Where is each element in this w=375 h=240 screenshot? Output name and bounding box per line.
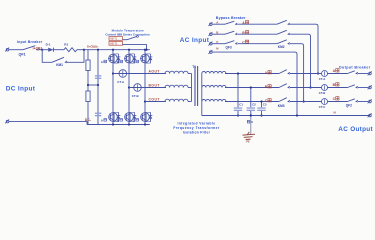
thermal sensor box HB-T2 — [109, 42, 123, 46]
AC input terminal N — [208, 50, 212, 54]
capacitor C2 top lead — [250, 88, 252, 108]
svg-text:C3: C3 — [263, 103, 267, 107]
bus dot bottom leg A — [112, 123, 114, 125]
bypass breaker QF3 pole B — [225, 31, 237, 35]
wire B to KM2 — [238, 33, 278, 35]
svg-text:T1: T1 — [192, 65, 196, 69]
output breaker QF2 pole B — [348, 85, 358, 88]
AC input label B — [216, 30, 219, 34]
capacitor C1 bottom lead — [237, 111, 239, 116]
svg-text:N: N — [216, 47, 218, 51]
wire secondary B to KM3 — [225, 87, 279, 89]
DC link capacitor rail — [97, 50, 99, 125]
bypass contactor KM2 pole C — [277, 40, 290, 45]
breaker QF1 — [23, 46, 38, 51]
phase C tap dot — [144, 100, 146, 102]
wire CT to QF2 B — [328, 87, 348, 89]
wire C to KM2 — [238, 43, 278, 45]
svg-text:Frequency Transformer: Frequency Transformer — [173, 126, 220, 130]
wire CT to QF2 A — [328, 73, 348, 75]
svg-text:Input Breaker: Input Breaker — [17, 40, 43, 44]
transformer core — [195, 66, 198, 106]
svg-text:N: N — [334, 110, 336, 114]
output contactor KM3 pole B — [279, 84, 290, 88]
thermal bus junction dot — [145, 49, 147, 51]
svg-text:DC Input: DC Input — [6, 86, 36, 93]
phase A wire — [113, 73, 166, 75]
DC+ input terminal — [5, 48, 9, 52]
capacitor C2 tap dot — [250, 86, 252, 88]
caption line3 — [183, 130, 211, 134]
label Input Breaker — [17, 40, 43, 44]
wire A to KM2 — [238, 23, 278, 25]
AC input label N — [216, 47, 218, 51]
wire secondary C to KM3 — [225, 101, 279, 103]
leg A vertical — [112, 50, 114, 125]
svg-text:C1: C1 — [239, 103, 243, 107]
label T1 — [192, 65, 196, 69]
svg-text:QF1: QF1 — [19, 52, 26, 56]
primary star link — [191, 74, 193, 102]
AC output terminal C — [368, 99, 372, 103]
contactor KM1 — [52, 57, 67, 63]
label DC Input — [6, 86, 36, 93]
thermal wire 1 — [123, 39, 128, 41]
CT-A sensor — [119, 70, 127, 78]
AC input label A — [216, 20, 219, 24]
bus dot top leg B — [128, 49, 130, 51]
resistor R1 — [64, 48, 77, 52]
leg C vertical — [144, 50, 146, 125]
bypass contactor KM2 pole B — [277, 30, 290, 35]
svg-text:Isolation Filter: Isolation Filter — [183, 130, 211, 134]
neutral label box-N — [247, 120, 252, 124]
AC input terminal C — [208, 42, 212, 46]
bypass wire A down — [290, 24, 318, 73]
label CT-C out — [319, 105, 326, 109]
svg-text:COUT: COUT — [149, 97, 160, 101]
AC output terminal A — [368, 71, 372, 75]
balance resistor rail — [87, 50, 89, 125]
phase C wire — [145, 101, 166, 103]
IGBT B upper label — [117, 60, 123, 64]
svg-text:HB-T2: HB-T2 — [110, 43, 118, 46]
DC- input wire — [9, 122, 87, 125]
label Bypass Breaker — [216, 16, 246, 20]
neutral bus — [202, 115, 370, 117]
midpoint dot left — [87, 84, 89, 86]
wire QF2 to terminal B — [358, 87, 368, 89]
leg B vertical — [128, 50, 130, 125]
svg-text:D+CB(1)+: D+CB(1)+ — [87, 44, 99, 48]
capacitor C1 tap dot — [237, 72, 239, 74]
wire QF2 to terminal A — [358, 73, 368, 75]
wire secondary A to KM3 — [225, 73, 279, 75]
AC input terminal B — [208, 32, 212, 36]
IGBT A lower label — [101, 118, 107, 122]
output node label A — [333, 69, 339, 73]
output contactor KM3 pole C — [279, 98, 290, 102]
label CT-A out — [319, 77, 326, 81]
bus dot top leg C — [144, 49, 146, 51]
label PE — [246, 141, 250, 144]
output CT-B — [322, 85, 328, 91]
thermal sensor box HB-T1 — [109, 37, 123, 41]
bypass join dot C — [303, 100, 305, 102]
DC- input terminal — [5, 119, 9, 123]
label CT-A — [117, 80, 125, 84]
bypass node label A — [242, 21, 248, 25]
filter inductor C (primary winding) — [165, 99, 192, 101]
CT-B sensor — [134, 84, 142, 92]
label C1 — [239, 103, 243, 107]
IGBT C upper label — [133, 60, 139, 64]
DC link capacitor upper — [95, 75, 101, 79]
capacitor C3 top lead — [261, 102, 263, 108]
IGBT A lower — [108, 112, 120, 121]
output neutral label N — [334, 110, 336, 114]
bypass breaker QF3 pole C — [225, 41, 237, 45]
output CT-A — [322, 71, 328, 77]
phase B tap dot — [128, 86, 130, 88]
bypass branch wire up-right — [67, 50, 84, 63]
label DC- — [85, 118, 92, 122]
svg-text:QF2: QF2 — [346, 104, 352, 108]
wire CT to QF2 C — [328, 101, 348, 103]
output node label C — [333, 97, 339, 101]
AC input terminal A — [208, 22, 212, 26]
output contactor KM3 pole A — [279, 70, 290, 74]
DC+ top bus — [84, 49, 150, 51]
wire QF1 to node — [38, 49, 42, 51]
thermal wire 2 — [123, 43, 147, 45]
label CT-B out — [319, 91, 326, 95]
capacitor C3 neutral dot — [260, 114, 262, 116]
AC input wire B to QF3 — [212, 33, 225, 35]
phase B wire — [129, 87, 166, 89]
junction dot D+ node — [83, 49, 85, 51]
bypass join dot B — [309, 86, 311, 88]
wire KM3 to CT A — [290, 73, 322, 75]
capacitor C3 bottom lead — [261, 111, 263, 116]
thermal switch pivot — [137, 36, 139, 38]
label CT-B — [132, 94, 139, 98]
earth ground symbol — [243, 132, 256, 140]
AC output terminal N — [368, 113, 372, 117]
neutral wire N to corner — [212, 52, 297, 115]
bypass contactor KM2 pole A — [277, 20, 290, 25]
svg-text:PE: PE — [246, 141, 250, 144]
wire KM3 to CT C — [290, 101, 322, 103]
bypass breaker QF3 pole A — [225, 21, 237, 25]
output breaker QF2 pole A — [348, 71, 358, 74]
label AOUT — [149, 69, 160, 73]
inverter-output label A — [265, 71, 271, 75]
wire R1 to node D+CB1 — [77, 49, 84, 51]
svg-text:KM2: KM2 — [278, 45, 285, 49]
midpoint dot right — [97, 84, 99, 86]
svg-text:Control 888 Series Conception: Control 888 Series Conception — [105, 32, 149, 36]
IGBT C lower — [140, 112, 152, 121]
balance resistor upper — [86, 60, 90, 71]
wire DC+ terminal to QF1 — [9, 49, 23, 51]
node D+CB(1)+ label — [87, 44, 99, 48]
capacitor C1 — [234, 107, 242, 111]
bus dot top leg A — [112, 49, 114, 51]
label R1 — [64, 43, 68, 47]
label BOUT — [149, 83, 160, 87]
inverter-output label C — [265, 99, 271, 103]
svg-text:R1: R1 — [64, 43, 68, 47]
IGBT A upper label — [101, 60, 107, 64]
label Output Breaker — [339, 65, 371, 69]
secondary star link — [201, 74, 203, 116]
bypass wire C down — [290, 44, 304, 102]
node i+CB1 label — [33, 46, 43, 50]
svg-text:BOUT: BOUT — [149, 83, 160, 87]
label AC Output — [338, 126, 373, 133]
AC output terminal B — [368, 85, 372, 89]
bypass wire B down — [290, 34, 311, 87]
label KM2 — [278, 45, 285, 49]
svg-text:CT-C: CT-C — [319, 105, 326, 109]
IGBT B upper — [124, 54, 136, 63]
svg-text:Bypass Breaker: Bypass Breaker — [216, 16, 246, 20]
svg-text:CT-A: CT-A — [319, 77, 326, 81]
neutral join dot — [296, 114, 298, 116]
svg-text:AOUT: AOUT — [149, 69, 160, 73]
AC input label C — [216, 40, 219, 44]
bypass branch wire down-left — [42, 50, 52, 63]
label COUT — [149, 97, 160, 101]
DC link capacitor lower — [95, 113, 101, 117]
label D-1 — [46, 43, 51, 47]
output breaker QF2 pole C — [348, 99, 358, 102]
svg-text:D-1: D-1 — [46, 43, 51, 47]
IGBT C upper — [140, 54, 152, 63]
capacitor C3 tap dot — [260, 100, 262, 102]
label QF2 — [346, 104, 352, 108]
svg-text:i+CB1: i+CB1 — [33, 46, 43, 50]
svg-text:Integrated Variable: Integrated Variable — [177, 122, 215, 126]
svg-text:CT-A: CT-A — [117, 80, 125, 84]
bus dot bottom leg C — [144, 123, 146, 125]
label C3 — [263, 103, 267, 107]
secondary winding C — [202, 99, 226, 101]
output node label B — [333, 83, 339, 87]
wire QF2 to terminal C — [358, 101, 368, 103]
svg-text:QF3: QF3 — [226, 45, 232, 49]
svg-text:KM3: KM3 — [278, 104, 285, 108]
bypass node label C — [242, 40, 248, 44]
bypass node label B — [242, 31, 248, 35]
caption line2 — [173, 126, 220, 130]
midpoint tie wire — [88, 84, 98, 86]
DC- bottom bus — [87, 124, 150, 126]
wire KM3 to CT B — [290, 87, 322, 89]
capacitor C2 bottom lead — [250, 111, 252, 116]
phase A tap dot — [112, 72, 114, 74]
svg-text:KM1: KM1 — [56, 63, 63, 67]
thermal switch blade — [127, 37, 137, 40]
bypass join dot A — [317, 72, 319, 74]
label KM1 — [56, 63, 63, 67]
IGBT B lower label — [117, 118, 123, 122]
AC input wire A to QF3 — [212, 23, 225, 25]
wire D-1 to R1 — [53, 49, 64, 51]
output CT-C — [322, 99, 328, 105]
label AC Input — [180, 37, 210, 44]
thermal wire to bus — [146, 44, 148, 49]
inverter-output label B — [265, 85, 271, 89]
label QF1 — [19, 52, 26, 56]
node junction after QF1 — [41, 49, 43, 51]
svg-text:AC Input: AC Input — [180, 37, 210, 44]
filter inductor B (primary winding) — [165, 85, 192, 87]
ground lead — [250, 116, 252, 135]
balance resistor lower — [86, 91, 90, 102]
label Module Temperature line1 — [112, 29, 145, 33]
svg-text:AC Output: AC Output — [338, 126, 373, 133]
label Control 888 Series line2 — [105, 32, 149, 36]
filter inductor A (primary winding) — [165, 71, 192, 73]
ground junction dot — [250, 114, 252, 116]
svg-text:C2: C2 — [252, 103, 256, 107]
IGBT B lower — [124, 112, 136, 121]
capacitor C3 — [257, 107, 265, 111]
IGBT C lower label — [133, 118, 139, 122]
capacitor C1 neutral dot — [237, 114, 239, 116]
svg-text:CT-B: CT-B — [319, 91, 326, 95]
diode D-1 — [48, 48, 53, 52]
label KM3 — [278, 104, 285, 108]
label QF3 — [226, 45, 232, 49]
secondary winding A — [202, 71, 226, 73]
junction dot cap rail top — [97, 49, 99, 51]
svg-text:CT-B: CT-B — [132, 94, 139, 98]
svg-text:Output Breaker: Output Breaker — [339, 65, 371, 69]
IGBT A upper — [108, 54, 120, 63]
capacitor C2 — [247, 107, 255, 111]
svg-text:HB-T1: HB-T1 — [110, 38, 118, 41]
capacitor C2 neutral dot — [250, 114, 252, 116]
wire node to D-1 — [42, 49, 48, 51]
label C2 — [252, 103, 256, 107]
AC input wire C to QF3 — [212, 43, 225, 45]
caption line1 — [177, 122, 215, 126]
secondary winding B — [202, 85, 226, 87]
capacitor C1 top lead — [237, 74, 239, 108]
bus dot bottom leg B — [128, 123, 130, 125]
